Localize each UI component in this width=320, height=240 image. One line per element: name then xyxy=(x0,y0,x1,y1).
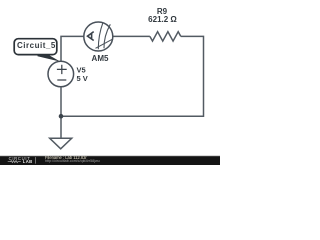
svg-text:621.2 Ω: 621.2 Ω xyxy=(148,15,177,24)
footer bar soft top edge xyxy=(0,155,220,158)
wire: V5 bottom to ground xyxy=(60,87,62,139)
ammeter scale arc outer xyxy=(104,24,110,48)
callout tail for Circuit_5 xyxy=(38,54,61,62)
wire: resistor to top-right corner, down right side, bottom to junction xyxy=(63,36,204,116)
svg-text:http://circuitlab.com/c/qkt4rr: http://circuitlab.com/c/qkt4rr58jwu xyxy=(45,159,100,163)
ammeter AM5 circle xyxy=(84,22,113,51)
ground xyxy=(50,138,72,149)
ammeter needle xyxy=(96,39,113,48)
V5 minus sign xyxy=(57,79,66,81)
wire: from V5 top up and right to ammeter xyxy=(61,36,84,61)
callout box Circuit_5 xyxy=(14,39,57,55)
footer separator xyxy=(35,157,37,164)
svg-text:AM5: AM5 xyxy=(92,54,109,63)
wire: ammeter to resistor xyxy=(113,35,150,37)
svg-text:LAB: LAB xyxy=(23,159,33,164)
footer bar xyxy=(0,156,220,165)
svg-text:Circuit_5: Circuit_5 xyxy=(17,41,56,50)
voltage source V5 circle xyxy=(48,61,74,87)
ammeter A glyph (rotated, drawn as path) xyxy=(88,32,94,41)
svg-text:5 V: 5 V xyxy=(77,74,88,83)
V5 plus sign xyxy=(57,65,67,74)
footer logo resistor squiggle xyxy=(8,161,21,163)
junction node xyxy=(59,114,64,119)
ammeter scale arc inner xyxy=(98,22,103,49)
resistor R9 xyxy=(150,32,181,41)
